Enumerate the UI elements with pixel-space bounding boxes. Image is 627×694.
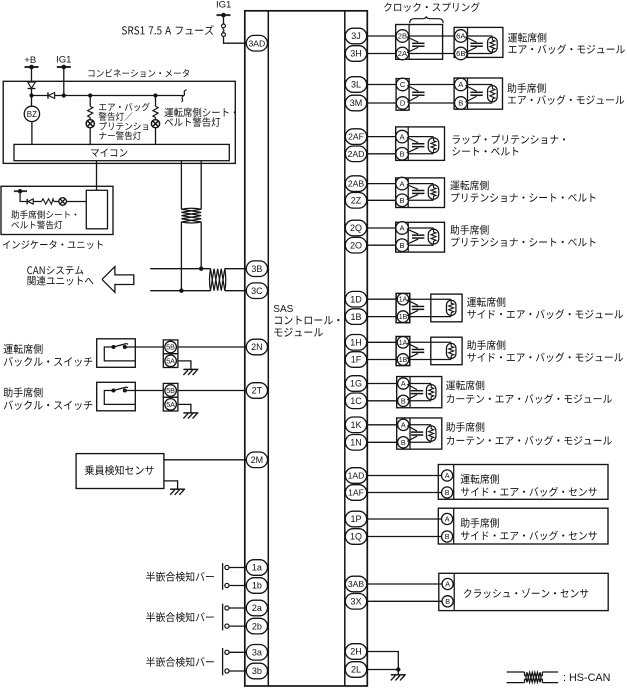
connector pin 1N: [345, 435, 366, 451]
switch contacts: [104, 387, 135, 404]
wire: [408, 184, 433, 201]
pin B: [398, 395, 409, 406]
connector pin 2b: [246, 618, 267, 634]
svg-text:2AD: 2AD: [348, 149, 365, 159]
pin 6A: [455, 30, 468, 43]
svg-text:3AD: 3AD: [249, 38, 266, 48]
wire +B down: [31, 67, 33, 82]
svg-text:3C: 3C: [251, 286, 263, 296]
fuse SRS1 7.5 A: [222, 24, 226, 36]
connector pin 3X: [345, 594, 366, 610]
svg-text:1AD: 1AD: [348, 471, 365, 481]
wire 5B to module: [135, 346, 247, 348]
svg-text:2a: 2a: [252, 603, 262, 613]
svg-text:3J: 3J: [351, 31, 361, 41]
pin A: [455, 78, 468, 91]
wire: [467, 36, 492, 54]
svg-text:2T: 2T: [252, 386, 263, 396]
junction: [179, 289, 183, 293]
pretensioner box: [396, 127, 445, 160]
squib (side airbag): [446, 300, 456, 315]
pin B: [398, 437, 409, 448]
junction: [199, 267, 203, 271]
wire: [223, 15, 225, 24]
wire: [200, 222, 202, 269]
wire: [409, 35, 455, 37]
wire: [409, 298, 451, 300]
node battery (indicator): [14, 189, 27, 193]
wire: [229, 607, 247, 609]
svg-text:A: A: [401, 379, 406, 388]
pin A: [396, 130, 409, 143]
indicator unit box: [1, 186, 113, 234]
wire CAN-H from meter: [180, 161, 182, 210]
svg-text:1B: 1B: [399, 314, 408, 321]
wire: [409, 102, 455, 104]
squib (side airbag): [446, 343, 456, 358]
pin 1A: [397, 337, 409, 349]
resistor (airbag warning lamp): [88, 96, 93, 118]
ground: [170, 489, 185, 495]
wire: [367, 341, 397, 343]
label SRS1 7.5 A fuse: [122, 25, 214, 35]
connector pin 2Z: [345, 193, 366, 209]
svg-text:5B: 5B: [166, 343, 175, 352]
wire: [367, 383, 398, 385]
connector C/D box: [396, 79, 409, 111]
svg-text:1A: 1A: [399, 297, 408, 304]
wire: [229, 585, 247, 587]
diode D3: [27, 199, 41, 205]
connector pin 3b: [246, 663, 267, 679]
svg-text:C: C: [400, 80, 406, 89]
label 助手席側: [4, 387, 93, 410]
svg-text:B: B: [458, 99, 463, 108]
wire continuation squiggle: [181, 90, 186, 102]
arrow to CAN system: [102, 267, 134, 293]
connector pin 3AD: [246, 35, 267, 51]
connector pin 1AF: [345, 485, 366, 501]
svg-text:2AF: 2AF: [348, 132, 364, 142]
wire CAN-L: [150, 290, 210, 292]
label 運転席側: [461, 474, 499, 484]
svg-text:1C: 1C: [350, 396, 362, 406]
junction: [62, 93, 66, 97]
passenger airbag module box: [454, 78, 502, 109]
legend twisted pair HS-CAN: [507, 672, 559, 683]
lamp seat belt warning: [151, 118, 159, 145]
svg-text:B: B: [445, 488, 450, 497]
pin 1B: [397, 311, 409, 323]
label 助手席側: [461, 518, 499, 528]
svg-text:BZ: BZ: [27, 110, 37, 119]
label combination meter: [88, 69, 189, 77]
svg-text:2b: 2b: [252, 621, 262, 631]
svg-text:A: A: [445, 515, 450, 524]
svg-text:IG1: IG1: [56, 54, 71, 65]
wire 5A to ground: [178, 361, 191, 369]
svg-text:1H: 1H: [350, 338, 362, 348]
wire: [367, 136, 397, 138]
wire: [409, 341, 451, 343]
node IG1 (meter): [56, 54, 71, 69]
svg-text:B: B: [400, 241, 405, 250]
pin A: [442, 513, 453, 524]
pin A: [442, 470, 453, 481]
squib (pretensioner): [428, 229, 439, 244]
wire to 3B: [225, 268, 247, 270]
svg-text:5A: 5A: [166, 400, 175, 409]
combination meter box: [3, 81, 235, 163]
wire: [229, 651, 247, 653]
svg-text:2L: 2L: [351, 665, 361, 675]
wire: [409, 84, 455, 86]
shorting bar: [407, 343, 424, 358]
wire: [409, 359, 451, 361]
svg-text:1a: 1a: [252, 563, 262, 573]
wire 2H to ground: [367, 652, 399, 670]
lamp airbag warning: [86, 118, 94, 145]
label SAS control module: [273, 304, 339, 336]
connector 5B: [163, 383, 178, 397]
pin 2A: [396, 47, 409, 60]
svg-text:1b: 1b: [252, 581, 262, 591]
pin A: [442, 578, 453, 589]
svg-text:1K: 1K: [350, 420, 361, 430]
wire 3L: [367, 84, 397, 86]
svg-text:+B: +B: [24, 55, 36, 66]
connector pin 2L: [345, 662, 366, 678]
wire: [367, 536, 442, 538]
connector pin 2N: [246, 339, 267, 355]
wire: [367, 518, 442, 520]
svg-text:1P: 1P: [350, 514, 361, 524]
wire: [367, 600, 442, 602]
pin B: [396, 148, 409, 161]
connector pin 1b: [246, 578, 267, 594]
connector pin 1C: [345, 393, 366, 409]
connector pin 1G: [345, 376, 366, 392]
connector pin 3H: [345, 46, 366, 62]
svg-text:1G: 1G: [350, 379, 362, 389]
wire 5A to ground: [178, 404, 191, 412]
label passenger seat belt warning lamp: [11, 210, 76, 229]
svg-text:3M: 3M: [350, 98, 363, 108]
side airbag module box: [431, 294, 462, 322]
SAS control module box: [245, 11, 367, 686]
svg-text:1A: 1A: [399, 340, 408, 347]
svg-text:: HS-CAN: : HS-CAN: [563, 672, 610, 684]
svg-text:3B: 3B: [251, 264, 262, 274]
wire 2L to ground: [367, 669, 399, 671]
svg-text:3H: 3H: [350, 49, 362, 59]
wire to indicator unit: [96, 161, 98, 191]
svg-text:3AB: 3AB: [348, 579, 365, 589]
shorting bar: [407, 138, 425, 153]
svg-text:1N: 1N: [350, 438, 362, 448]
svg-text:B: B: [445, 532, 450, 541]
svg-text:A: A: [445, 471, 450, 480]
shorting bar: [407, 185, 425, 200]
buckle switch box: [97, 339, 136, 368]
ground: [183, 369, 198, 375]
svg-text:1AF: 1AF: [348, 488, 364, 498]
pin B: [442, 531, 453, 542]
label 運転席側: [450, 180, 595, 202]
squib (passenger airbag): [488, 86, 498, 102]
switch contacts: [104, 344, 135, 361]
label passenger airbag module: [507, 83, 624, 105]
ground: [391, 675, 406, 681]
svg-text:A: A: [445, 580, 450, 589]
svg-text:2Q: 2Q: [350, 223, 362, 233]
label サイド・エア・バッグ・センサ: [461, 487, 597, 497]
junction: [153, 93, 157, 97]
wire: [229, 670, 247, 672]
svg-text:2B: 2B: [398, 32, 407, 41]
wire: [367, 400, 398, 402]
connector pin 3C: [246, 283, 267, 299]
connector pin 2AF: [345, 129, 366, 145]
wire to 3C: [225, 290, 247, 292]
wire: [367, 441, 398, 443]
connector pin 1B: [345, 309, 366, 325]
side airbag module box: [431, 337, 462, 365]
connector pin 3L: [345, 77, 366, 93]
brace (clock spring): [410, 16, 444, 23]
diode D2: [48, 92, 55, 98]
shorting bar: [465, 85, 482, 102]
wire: [397, 670, 399, 675]
svg-text:A: A: [401, 420, 406, 429]
connector pin 3a: [246, 645, 267, 661]
pin 1A: [397, 293, 409, 305]
connector pin 1K: [345, 417, 366, 433]
squib (driver airbag): [488, 37, 498, 52]
pin 2B: [396, 30, 409, 43]
wire: [367, 298, 397, 300]
pin 1B: [397, 354, 409, 366]
squib (pretensioner): [428, 138, 439, 153]
wire bus: [55, 95, 184, 97]
svg-text:B: B: [400, 150, 405, 159]
sensor box: [438, 508, 608, 544]
connector pin 2H: [345, 644, 366, 660]
pin A: [398, 378, 409, 389]
label half-fit detection bar: [146, 657, 214, 667]
connector pin 3M: [345, 95, 366, 111]
wire: [409, 53, 455, 55]
wire: [367, 227, 397, 229]
half-fit detection bar: [223, 563, 229, 590]
svg-text:5B: 5B: [166, 386, 175, 395]
connector 5A: [163, 354, 178, 368]
svg-text:2O: 2O: [350, 240, 362, 250]
svg-text:3X: 3X: [350, 597, 361, 607]
connector pin 2T: [246, 383, 267, 399]
squib (curtain airbag): [426, 385, 436, 400]
svg-text:2H: 2H: [350, 647, 362, 657]
wire: [180, 222, 182, 291]
label driver airbag module: [508, 33, 625, 54]
svg-text:2M: 2M: [251, 455, 264, 465]
wire: [408, 137, 433, 154]
svg-text:B: B: [401, 438, 406, 447]
pin B: [442, 596, 453, 607]
occupant detection sensor box: [76, 454, 164, 489]
connector pin 2Q: [345, 220, 366, 236]
wire: [229, 625, 247, 627]
half-fit detection bar: [223, 648, 229, 675]
pretensioner box: [396, 178, 445, 208]
connector pin 3J: [345, 28, 366, 44]
connector 1A/1B box: [396, 337, 410, 366]
svg-text:1F: 1F: [351, 355, 362, 365]
label 助手席側: [450, 225, 595, 247]
label 助手席側: [467, 340, 623, 362]
curtain airbag box: [397, 377, 442, 408]
twisted pair HS-CAN: [210, 269, 226, 291]
svg-text:B: B: [400, 196, 405, 205]
label 運転席側: [4, 344, 93, 367]
wire bus: [32, 95, 49, 97]
connector pin 1a: [246, 560, 267, 576]
label driver seat belt warning lamp: [165, 108, 236, 127]
connector pin 2M: [246, 452, 267, 468]
label 運転席側: [467, 297, 623, 319]
shorting bar: [465, 37, 482, 53]
connector pin 1P: [345, 511, 366, 527]
wire: [467, 85, 492, 104]
pin C: [396, 78, 409, 91]
wire 3M: [367, 102, 397, 104]
svg-text:B: B: [445, 597, 450, 606]
connector pin 2O: [345, 237, 366, 253]
svg-text:3b: 3b: [252, 666, 262, 676]
connector pin 2a: [246, 600, 267, 616]
label 助手席側: [446, 422, 612, 445]
svg-text:2A: 2A: [398, 49, 408, 58]
shorting bar: [407, 426, 423, 442]
connector pin 2AB: [345, 176, 366, 192]
shorting bar: [407, 37, 425, 53]
wire: [367, 359, 397, 361]
pin B: [442, 487, 453, 498]
label clock spring: [384, 2, 480, 12]
label クラッシュ・ゾーン・センサ: [464, 588, 588, 598]
connector pin 1Q: [345, 529, 366, 545]
svg-text:1B: 1B: [350, 312, 361, 322]
junction: [396, 667, 400, 671]
lamp passenger seat belt warning: [54, 198, 86, 206]
svg-text:5A: 5A: [166, 356, 175, 365]
wire IG1 down: [63, 67, 65, 96]
connector pin 1H: [345, 335, 366, 351]
wire: [20, 191, 27, 201]
label airbag/pretensioner warning lamp: [99, 103, 150, 140]
ground: [183, 413, 198, 419]
connector pin 3AB: [345, 576, 366, 592]
wire: [409, 425, 431, 443]
label indicator unit: [3, 240, 103, 249]
wire: [367, 244, 397, 246]
svg-text:6B: 6B: [456, 49, 465, 58]
svg-text:1D: 1D: [350, 294, 362, 304]
driver airbag module box: [454, 27, 503, 57]
connector pin 1AD: [345, 468, 366, 484]
wire to ground: [164, 481, 178, 489]
svg-text:3a: 3a: [252, 648, 262, 658]
svg-text:B: B: [401, 396, 406, 405]
pin A: [396, 177, 409, 190]
svg-text:1B: 1B: [399, 357, 408, 364]
svg-text:2N: 2N: [251, 342, 263, 352]
sensor box: [438, 465, 608, 500]
diode D1: [28, 82, 36, 96]
buckle switch box: [97, 382, 136, 411]
buzzer BZ: [24, 96, 39, 145]
pin A: [396, 222, 409, 235]
connector 5B: [163, 340, 178, 354]
connector pin 3B: [246, 261, 267, 277]
microcomputer box: [14, 144, 229, 160]
svg-text:2AB: 2AB: [348, 179, 365, 189]
wire CAN-L from meter: [200, 161, 202, 210]
wire: [367, 424, 398, 426]
wire 5B to module: [135, 390, 247, 392]
svg-text:2Z: 2Z: [351, 196, 362, 206]
pin B: [396, 194, 409, 207]
wire 3J to clock spring: [367, 35, 397, 37]
resistor R1: [42, 199, 54, 204]
junction: [88, 93, 92, 97]
svg-text:IG1: IG1: [216, 0, 231, 11]
label 運転席側: [446, 380, 612, 403]
svg-text:SAS: SAS: [273, 304, 293, 315]
node +B: [24, 55, 38, 69]
svg-text:1Q: 1Q: [350, 532, 362, 542]
label half-fit detection bar: [146, 612, 214, 622]
twisted pair (vertical): [181, 208, 201, 223]
wire: [367, 583, 442, 585]
pin A: [398, 419, 409, 430]
pin B: [396, 239, 409, 252]
wire to 3AD: [224, 37, 248, 44]
shorting bar: [407, 300, 424, 316]
shorting bar: [407, 85, 424, 102]
curtain airbag box: [397, 418, 442, 449]
wire: [367, 183, 397, 185]
wire CAN-H: [150, 268, 210, 270]
squib (pretensioner): [428, 185, 439, 200]
pin D: [396, 97, 409, 110]
wire: [367, 475, 442, 477]
connector 1A/1B box: [396, 293, 410, 322]
node IG1 (fuse feed): [216, 0, 231, 17]
label half-fit detection bar: [146, 572, 214, 582]
label to CAN system units: [27, 266, 93, 285]
pin B: [455, 97, 468, 110]
shorting bar: [407, 229, 425, 244]
label ラップ・プリテンショナ・: [452, 135, 565, 156]
wire: [229, 567, 247, 569]
connector pin 2AD: [345, 146, 366, 162]
label HS-CAN: [563, 672, 610, 684]
junction: [29, 93, 33, 97]
wire: [367, 153, 397, 155]
pretensioner box: [396, 222, 445, 252]
squib (curtain airbag): [426, 426, 436, 441]
